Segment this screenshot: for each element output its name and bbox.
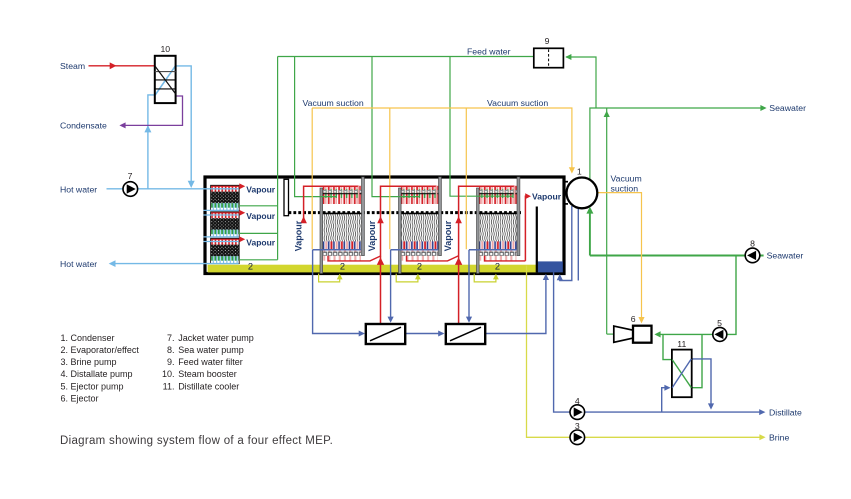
red steam line <box>89 65 155 67</box>
svg-text:Feed water filter: Feed water filter <box>178 357 243 367</box>
green branch to ejector pump 5 <box>656 256 736 335</box>
svg-text:11.: 11. <box>163 381 175 391</box>
pump 7 jacket water pump <box>123 182 138 197</box>
hanging baffle <box>284 179 289 215</box>
yellow vacuum drops into vessel <box>312 108 466 249</box>
brine outlet line to pump 3 <box>527 266 764 438</box>
red vapour arrow block 2 <box>239 210 245 216</box>
feed water filter 9 <box>534 48 564 67</box>
pump 4 distillate pump <box>570 405 585 420</box>
yellow condenser to ejector suction <box>597 193 641 320</box>
red vapour arrow block 3 <box>239 236 245 242</box>
svg-text:Brine: Brine <box>769 433 789 443</box>
red vapour line to condenser chamber <box>525 196 527 261</box>
green seawater main <box>590 255 764 257</box>
light blue booster return down to hot water line <box>175 66 191 187</box>
svg-text:Steam: Steam <box>60 61 85 71</box>
svg-text:Vapour: Vapour <box>246 211 276 221</box>
flash box A <box>366 324 405 344</box>
svg-text:4. Distallate pump: 4. Distallate pump <box>61 369 133 379</box>
svg-text:9.: 9. <box>167 357 175 367</box>
svg-text:8.: 8. <box>167 345 175 355</box>
blue condenser drains to sump <box>560 206 579 281</box>
svg-text:Vapour: Vapour <box>246 237 276 247</box>
distillate cooler 11 <box>672 350 692 398</box>
legend column 1 <box>61 333 140 404</box>
svg-text:Feed water: Feed water <box>467 46 511 56</box>
flash box B <box>446 324 485 344</box>
svg-text:Distillate cooler: Distillate cooler <box>178 381 239 391</box>
weir wall <box>536 207 538 273</box>
blue distillate branch through cooler 11 <box>662 388 669 412</box>
light blue block rails <box>204 210 239 241</box>
effect 2 right hanging bar <box>439 177 442 256</box>
steam booster 10 <box>155 56 176 103</box>
svg-text:Vacuum suction: Vacuum suction <box>303 98 364 108</box>
main dashed demister line <box>289 211 522 214</box>
svg-text:9: 9 <box>545 36 550 46</box>
blue tray drop effect 1 to flash box A <box>313 250 363 334</box>
svg-text:4: 4 <box>575 396 580 406</box>
light blue diagonal through booster <box>155 66 175 95</box>
pump 5 ejector pump <box>713 327 727 341</box>
yellow-green brine jumper 3 <box>474 274 496 282</box>
green feed drop effect 1 <box>295 57 336 197</box>
svg-text:Sea water pump: Sea water pump <box>178 345 244 355</box>
jacket water block 3 <box>211 238 240 263</box>
svg-text:Vapour: Vapour <box>532 191 562 201</box>
blue tray drop effect 2 into flash box A <box>390 250 392 320</box>
svg-text:Seawater: Seawater <box>767 251 804 261</box>
svg-text:Vapour: Vapour <box>246 184 276 194</box>
svg-text:8: 8 <box>750 239 755 249</box>
svg-text:3. Brine pump: 3. Brine pump <box>61 357 117 367</box>
condenser circle 1 <box>564 178 598 209</box>
svg-text:2. Evaporator/effect: 2. Evaporator/effect <box>61 345 140 355</box>
green feed water header <box>278 56 534 58</box>
svg-text:6: 6 <box>631 314 636 324</box>
svg-text:3: 3 <box>575 421 580 431</box>
effect 3 left tube sheet bar <box>477 188 480 274</box>
sump (distillate box) <box>537 261 563 272</box>
effect 3 tube bundle <box>479 186 517 261</box>
light blue hot water return <box>111 263 239 265</box>
legend column 2 <box>162 333 254 392</box>
pump 8 sea water pump <box>745 248 760 263</box>
yellow-green brine jumper 2 <box>396 274 418 282</box>
svg-text:10: 10 <box>160 44 170 54</box>
cooler green diagonal <box>672 360 691 388</box>
cooler blue diagonal <box>672 359 691 388</box>
svg-text:2: 2 <box>417 262 422 272</box>
svg-text:1. Condenser: 1. Condenser <box>61 333 115 343</box>
red bottom manifold effect 2 <box>407 256 459 261</box>
green feed drop effect 3 <box>450 57 513 197</box>
svg-text:Jacket water pump: Jacket water pump <box>178 333 254 343</box>
effect 1 right hanging bar <box>362 177 365 256</box>
green condenser inlet riser <box>589 210 591 256</box>
svg-text:Vapour: Vapour <box>367 220 377 251</box>
svg-text:2: 2 <box>248 262 253 272</box>
light blue riser to steam booster <box>148 95 155 189</box>
svg-text:2: 2 <box>495 262 500 272</box>
svg-text:Seawater: Seawater <box>769 103 806 113</box>
svg-text:Distillate: Distillate <box>769 407 802 417</box>
effect 1 tube bundle <box>323 186 362 261</box>
jacket water block 2 <box>211 212 240 237</box>
svg-text:Diagram showing system flow of: Diagram showing system flow of a four ef… <box>60 435 333 447</box>
red vapour riser effect 2 (from flash box A) <box>381 186 437 324</box>
svg-text:Condensate: Condensate <box>60 121 107 131</box>
red vapour riser effect 3 (from flash box B) <box>459 186 515 324</box>
svg-text:Steam booster: Steam booster <box>178 369 237 379</box>
green feed drop to jacket blocks <box>239 57 278 260</box>
svg-text:5: 5 <box>717 318 722 328</box>
svg-text:Hot water: Hot water <box>60 259 97 269</box>
svg-text:6. Ejector: 6. Ejector <box>61 394 99 404</box>
svg-text:5. Ejector pump: 5. Ejector pump <box>61 381 124 391</box>
effect 2 left tube sheet bar <box>399 188 402 274</box>
svg-text:Vacuum suction: Vacuum suction <box>487 98 548 108</box>
green ejector discharge riser <box>606 108 608 334</box>
effect 1 left tube sheet bar <box>320 188 323 274</box>
pump 3 brine pump <box>570 430 585 445</box>
green cooler loop <box>663 334 702 387</box>
svg-text:Vapour: Vapour <box>443 220 453 251</box>
jacket water block 1 <box>211 185 240 210</box>
ejector 6 <box>614 326 652 343</box>
yellow vacuum suction header <box>312 108 572 170</box>
effect 3 right hanging bar <box>517 177 520 256</box>
blue sump drain to pump 4 / distillate line <box>554 273 764 413</box>
svg-text:Vacuum: Vacuum <box>611 173 642 183</box>
green condenser outlet to seawater outfall <box>590 108 764 180</box>
brine floor strip <box>208 265 538 273</box>
red vapour riser effect 1 <box>304 186 359 222</box>
yellow-green brine jumper 1 <box>319 274 340 282</box>
red vapour arrow block 1 <box>239 183 245 189</box>
svg-text:10.: 10. <box>162 369 175 379</box>
blue flash A to flash B <box>405 333 443 335</box>
blue flash B outlet up into sump <box>485 276 546 333</box>
svg-text:7.: 7. <box>167 333 175 343</box>
red bottom manifold effect 1 <box>328 256 381 261</box>
svg-text:Hot water: Hot water <box>60 184 97 194</box>
green line into feed filter from seawater riser <box>566 57 596 108</box>
svg-text:2: 2 <box>340 262 345 272</box>
green feed drop effect 2 <box>372 57 419 197</box>
effect 2 tube bundle <box>401 186 438 261</box>
svg-text:Vapour: Vapour <box>294 220 304 251</box>
red bottom manifold effect 3 <box>485 256 526 261</box>
evaporator vessel shell <box>205 177 564 274</box>
blue distillate tray rails <box>313 249 517 251</box>
light blue hot water inlet line <box>107 188 239 190</box>
svg-text:1: 1 <box>577 166 582 176</box>
purple condensate line <box>121 96 182 125</box>
blue tray drop effect 3 into flash box B <box>468 250 470 320</box>
svg-text:suction: suction <box>611 183 639 193</box>
svg-text:7: 7 <box>128 171 133 181</box>
svg-text:11: 11 <box>677 339 686 349</box>
